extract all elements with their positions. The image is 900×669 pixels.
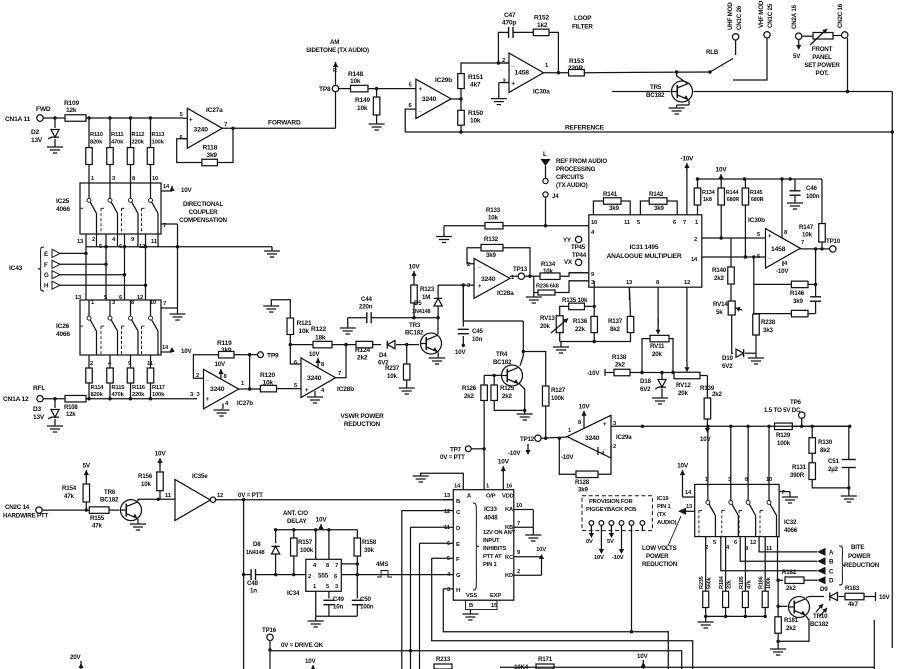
svg-text:100k: 100k [777, 440, 791, 447]
wire C column [401, 511, 403, 669]
svg-text:1N4148: 1N4148 [246, 550, 264, 556]
junction [752, 255, 755, 258]
wire pin3 gnd [499, 83, 509, 99]
junction [327, 528, 330, 531]
IC IC26 4066 box [80, 300, 161, 355]
svg-text:C45: C45 [472, 328, 484, 335]
arrow sidetone [333, 62, 338, 85]
wire R145 top [744, 179, 746, 188]
svg-text:HARDWIRE PTT: HARDWIRE PTT [3, 513, 48, 520]
svg-text:4066: 4066 [56, 206, 70, 213]
svg-text:R237: R237 [385, 365, 400, 372]
testpoint TP13 [513, 266, 528, 279]
svg-text:2: 2 [92, 237, 95, 243]
IC IC32 4066 box [695, 484, 779, 536]
junction [144, 245, 147, 248]
svg-text:220k: 220k [132, 392, 145, 398]
buffer input G [44, 271, 60, 280]
diode D19 6V2 [722, 349, 744, 370]
power 10V IC26 [169, 347, 192, 355]
ground R235 row [698, 616, 714, 628]
wire R117 top [150, 355, 152, 368]
wire pin14 gnd [413, 473, 464, 489]
svg-text:5V: 5V [607, 539, 614, 545]
zener D3 [33, 399, 59, 426]
resistor R146 [790, 281, 808, 305]
svg-text:10V: 10V [677, 463, 689, 470]
svg-text:7: 7 [338, 371, 341, 377]
wire RV12 right [700, 375, 707, 377]
wire R120 to IC28b [277, 388, 302, 390]
svg-text:G: G [456, 573, 461, 579]
brace IC43 [38, 247, 44, 291]
svg-text:R145: R145 [750, 190, 763, 196]
svg-text:B: B [829, 559, 834, 566]
ground IC28b [307, 388, 325, 403]
svg-text:3240: 3240 [422, 96, 437, 103]
svg-text:2k2: 2k2 [615, 362, 625, 369]
svg-text:D3: D3 [33, 406, 42, 413]
resistor R130 [809, 438, 833, 454]
svg-text:C50: C50 [360, 596, 372, 603]
wire CN2C down [847, 38, 849, 92]
ground 555 [308, 616, 324, 627]
diode D4 6V2 [378, 341, 395, 367]
wire fb up [498, 32, 508, 63]
svg-text:10V: 10V [579, 403, 591, 410]
wire TR5 emitter to right bus [694, 91, 893, 93]
svg-text:H: H [44, 283, 49, 290]
wire R149 gnd [376, 115, 378, 124]
wire IC30b out [800, 248, 829, 250]
diode D5 1N4148 [412, 298, 442, 315]
resistor R139 [700, 376, 722, 420]
wire TR6 emitter [130, 519, 146, 530]
svg-text:TP45: TP45 [571, 244, 586, 251]
svg-text:RV14: RV14 [713, 301, 728, 308]
svg-text:8k2: 8k2 [820, 447, 830, 454]
svg-text:VDD: VDD [502, 494, 514, 500]
wire pin3 node down [462, 285, 464, 321]
resistor R171 [536, 656, 554, 669]
wire 555 pin7 right [341, 563, 357, 565]
switch IC32 s1 [699, 484, 716, 536]
svg-text:REDUCTION: REDUCTION [344, 421, 381, 428]
svg-text:7: 7 [224, 122, 227, 128]
junction [176, 245, 179, 248]
wire C51 top [848, 426, 850, 459]
power 10V IC32 [677, 463, 695, 498]
svg-text:A: A [829, 549, 834, 556]
svg-text:TP10: TP10 [826, 238, 841, 245]
svg-text:10V: 10V [594, 555, 604, 561]
svg-text:RLB: RLB [706, 49, 719, 56]
junction [497, 61, 500, 64]
svg-text:4048: 4048 [484, 515, 498, 522]
label 0V = DRIVE OK [281, 642, 324, 649]
wire IC29b pin6 fb [405, 109, 416, 132]
svg-text:R138: R138 [612, 354, 627, 361]
pin labels IC31 bottom [626, 280, 690, 286]
svg-text:R157: R157 [298, 539, 313, 546]
junction [811, 425, 814, 428]
junction [144, 284, 147, 287]
svg-text:11: 11 [766, 546, 773, 552]
svg-text:10k: 10k [357, 105, 368, 112]
wire R116 bottom [130, 383, 132, 399]
svg-text:CN1C 26: CN1C 26 [736, 5, 743, 30]
svg-text:47k: 47k [92, 523, 102, 530]
wire fb branch1 [754, 283, 792, 285]
junction [53, 397, 56, 400]
svg-text:KD: KD [505, 573, 513, 579]
svg-text:R147: R147 [799, 224, 814, 231]
ground R237 [399, 388, 415, 394]
resistor R134b 10k [540, 261, 560, 279]
wire E column [419, 543, 421, 669]
svg-text:10V: 10V [181, 187, 192, 194]
wire R237 gnd [406, 380, 408, 388]
label IC32 [784, 519, 798, 534]
wire TP16 down [269, 641, 271, 669]
wire IC31 pin2 to IC30b pin5 [702, 237, 766, 239]
svg-text:R136: R136 [573, 318, 588, 325]
pin 8 15 [466, 600, 499, 609]
svg-text:TP6: TP6 [790, 399, 802, 406]
svg-text:3240: 3240 [194, 127, 209, 134]
junction [87, 116, 90, 119]
svg-text:2k2: 2k2 [714, 275, 724, 282]
testpoint TP10 [826, 238, 841, 252]
svg-text:B: B [469, 603, 473, 609]
junction [108, 397, 111, 400]
wire IC27a pin5 [183, 117, 187, 119]
wire pin12 down [686, 287, 688, 362]
svg-text:L: L [543, 151, 547, 158]
wire R124-D4 [373, 344, 381, 346]
wire IC29b pin5 [409, 88, 416, 90]
svg-text:11: 11 [444, 525, 451, 531]
wire CN2A to pot [802, 35, 813, 37]
svg-text:2: 2 [517, 569, 520, 575]
label pin14 IC32 [685, 490, 692, 496]
svg-text:R158: R158 [362, 539, 377, 546]
pin labels IC31 left [591, 272, 595, 286]
wire fb R119 right [234, 354, 250, 356]
svg-text:0V = PTT: 0V = PTT [238, 492, 263, 499]
terminal CN1A 12 [3, 385, 45, 403]
wire D5 top [437, 285, 439, 297]
power -10V TP12 [508, 444, 531, 457]
label VSWR POWER REDUCTION [340, 413, 384, 428]
wire E [60, 252, 86, 254]
wire R110 tap2 [88, 118, 90, 148]
label YY TP45 [563, 236, 586, 251]
wire R144 bot [720, 205, 722, 238]
pin labels IC25 bottom [77, 237, 158, 250]
svg-text:13: 13 [77, 239, 84, 245]
svg-text:10K4: 10K4 [514, 664, 529, 669]
label IC25 [56, 198, 70, 213]
resistor R121 [287, 318, 312, 335]
resistor R183 [845, 585, 864, 608]
svg-text:J4: J4 [552, 193, 559, 200]
op-amp IC30a [502, 53, 550, 95]
wire F column [432, 558, 693, 669]
svg-text:4066: 4066 [784, 527, 798, 534]
wire TP8 to R148 [339, 88, 351, 90]
power 5V R154 [83, 463, 91, 485]
capacitor C48 [247, 569, 259, 594]
wire R135 left [560, 306, 569, 315]
power 10V bottombox [637, 653, 648, 669]
svg-text:3240: 3240 [210, 386, 225, 393]
svg-text:PROCESSING: PROCESSING [556, 166, 596, 173]
svg-text:5V: 5V [83, 463, 91, 470]
svg-text:R121: R121 [297, 320, 312, 327]
terminal CN2A 16 [791, 4, 802, 39]
pin circle piggyback 3 [609, 521, 614, 526]
wire D8 stem [274, 528, 277, 543]
label AM SIDETONE [306, 39, 369, 54]
wire D5 to IC28a pin3 [438, 284, 474, 286]
op-amp IC29a left [567, 415, 632, 458]
svg-text:100n: 100n [360, 604, 374, 611]
wire R185 bot [744, 608, 747, 619]
wire fb branch2 [754, 284, 792, 313]
svg-text:3k9: 3k9 [793, 298, 803, 305]
svg-text:AUDIO): AUDIO) [657, 520, 677, 526]
label REFERENCE [565, 125, 605, 132]
svg-text:10V: 10V [637, 653, 648, 660]
svg-text:680R: 680R [751, 197, 764, 203]
svg-text:10n: 10n [472, 336, 482, 343]
junction [493, 374, 496, 377]
power -10V pig [612, 525, 624, 561]
svg-text:3240: 3240 [481, 276, 496, 283]
wire R141 left [593, 201, 603, 215]
svg-text:PIGGEYBACK PCB: PIGGEYBACK PCB [586, 507, 636, 513]
junction [459, 97, 462, 100]
wire TR6 collector [138, 499, 158, 501]
svg-text:E: E [44, 251, 48, 258]
wire R140 top [730, 238, 732, 267]
svg-text:4066: 4066 [56, 331, 70, 338]
pin circle piggyback 1 [589, 521, 594, 526]
wire R123 top [413, 276, 415, 285]
resistor R213 [434, 656, 452, 669]
svg-text:POWER: POWER [646, 553, 669, 560]
wire IC32 pin0 up [707, 426, 709, 484]
svg-text:220k: 220k [132, 140, 145, 146]
switch IC25 s4 [142, 182, 159, 233]
wire R130-R131 [811, 453, 813, 463]
pin numbers IC33 top [454, 484, 513, 490]
svg-text:R108: R108 [64, 405, 78, 411]
wire IC32 pin2 up [747, 426, 749, 484]
svg-text:R146: R146 [790, 290, 805, 297]
wire C51 bot [847, 468, 850, 490]
pin 7 IC26 [161, 301, 178, 308]
wire R186 bot [764, 608, 767, 619]
svg-text:INHIBITS: INHIBITS [483, 546, 507, 552]
svg-text:R148: R148 [348, 71, 363, 78]
op-amp IC29b [409, 77, 453, 119]
antenna L [541, 151, 551, 178]
pin KA [505, 503, 533, 513]
svg-text:KC: KC [505, 555, 514, 561]
svg-text:C44: C44 [361, 296, 373, 303]
wire 555 pin6 right [341, 574, 357, 576]
op-amp IC28b [294, 358, 354, 398]
svg-text:10k: 10k [350, 78, 361, 85]
wire pin13 down [628, 287, 630, 300]
svg-text:22k: 22k [575, 326, 585, 333]
svg-text:R111: R111 [111, 132, 124, 138]
svg-text:D5: D5 [414, 300, 422, 307]
resistor R124 [355, 341, 373, 361]
svg-text:14: 14 [685, 490, 692, 496]
wire R235 top [705, 537, 707, 592]
wire top TR4 [463, 320, 523, 322]
resistor R157 [291, 530, 314, 556]
diode D9 LED [816, 586, 838, 616]
wire H [60, 284, 146, 286]
svg-text:3k9: 3k9 [207, 152, 218, 159]
potentiometer RV11 [650, 318, 669, 358]
svg-text:12: 12 [444, 509, 450, 515]
svg-text:TR10: TR10 [813, 613, 828, 620]
junction [129, 397, 132, 400]
svg-text:-10V: -10V [776, 268, 789, 275]
svg-text:R181: R181 [784, 617, 799, 624]
op-amp IC27a [180, 107, 228, 148]
wire pin2 [498, 62, 509, 64]
svg-text:10V: 10V [181, 348, 192, 355]
wire pin6 up [290, 345, 301, 364]
svg-text:-10V: -10V [612, 555, 624, 561]
capacitor C47 [502, 12, 516, 38]
resistor R122 [311, 326, 332, 348]
resistor R134 [694, 188, 715, 205]
svg-text:R142: R142 [649, 191, 664, 198]
potentiometer RV12 [674, 362, 700, 397]
wire IC32 pin3 up [768, 426, 770, 484]
svg-text:0V = PTT: 0V = PTT [440, 454, 465, 461]
svg-text:RV13: RV13 [540, 315, 555, 322]
pin 13 IC32 [686, 504, 693, 510]
svg-text:CN2C 16: CN2C 16 [837, 3, 844, 28]
wire TR4 collector right [523, 352, 545, 387]
ground R236 [526, 293, 542, 304]
pin KC [505, 550, 542, 561]
wire IC27b out [239, 388, 261, 390]
zener D18 6V2 [640, 373, 666, 394]
svg-text:FORWARD: FORWARD [268, 120, 301, 127]
svg-text:10k: 10k [543, 268, 553, 275]
wire D4-TR3 [396, 344, 419, 346]
wire R142 right [667, 201, 677, 215]
label IC19 PIN1 [657, 496, 677, 526]
wire R134b right [560, 273, 589, 277]
svg-text:C51: C51 [828, 458, 840, 465]
wire R140-RV14 [730, 284, 732, 301]
power 10V rail [716, 167, 728, 181]
pin circle piggyback 6 [640, 521, 645, 526]
svg-text:10k: 10k [488, 215, 498, 222]
junction [848, 425, 851, 428]
svg-text:2k2: 2k2 [464, 393, 474, 400]
junction [746, 425, 749, 428]
pin labels IC31 top [591, 220, 699, 226]
wire pin9 left [569, 272, 589, 274]
svg-text:100k: 100k [152, 392, 165, 398]
wire low volts line [668, 516, 681, 546]
svg-text:3k9: 3k9 [578, 487, 588, 494]
svg-text:14: 14 [163, 184, 170, 190]
junction [696, 177, 699, 180]
svg-text:20k: 20k [540, 323, 550, 330]
svg-text:14: 14 [162, 345, 169, 351]
power 10V 555 [316, 517, 328, 531]
switch IC32 s2 [722, 484, 739, 536]
wire R153 to RLB [584, 71, 710, 74]
junction [528, 275, 531, 278]
resistor R126 [462, 385, 487, 401]
switch IC32 s4 [760, 484, 777, 536]
svg-text:H: H [456, 588, 460, 594]
wire RV14 bot [732, 315, 733, 353]
svg-text:10V: 10V [879, 594, 890, 601]
wire IC30b pin8 [781, 179, 783, 238]
resistor R158 [354, 530, 377, 556]
wire 555 pin5 down [328, 591, 330, 598]
ground D2 [47, 147, 63, 153]
switch IC26 s1 [80, 300, 97, 355]
switch IC26 s3 [122, 300, 139, 355]
svg-text:SIDETONE (TX AUDIO): SIDETONE (TX AUDIO) [306, 47, 369, 54]
svg-text:IC30b: IC30b [748, 217, 765, 224]
resistor R138 [612, 354, 630, 376]
svg-text:680R: 680R [727, 197, 740, 203]
wire IC29a pin3 out [611, 425, 850, 427]
resistor R135 [562, 297, 588, 310]
resistor R111 [107, 132, 125, 165]
wire R184 bot [724, 608, 727, 619]
wire IC32 pin1 up [730, 426, 732, 484]
ground D18 [652, 389, 668, 405]
svg-text:RFL: RFL [33, 385, 45, 392]
svg-text:R171: R171 [538, 656, 553, 663]
power 5V pig [607, 525, 614, 545]
wire pig6 down [641, 525, 643, 531]
wire fb left [753, 257, 755, 284]
resistor R238 [753, 314, 776, 335]
wire D19 right [745, 352, 756, 354]
wire IC27a pin6 [183, 138, 187, 140]
svg-text:0V: 0V [586, 539, 593, 545]
wire C50 bot [356, 605, 358, 617]
pin labels IC26 top [75, 295, 156, 306]
wire pig5 down [631, 525, 633, 631]
pin labels 555 [308, 563, 339, 590]
capacitor C46b [810, 284, 821, 313]
IC 555 box [306, 559, 342, 591]
wire TR4 collector [520, 321, 525, 366]
svg-text:R117: R117 [152, 385, 165, 391]
label LOOP FILTER [572, 15, 593, 31]
svg-text:BC182: BC182 [405, 330, 424, 337]
